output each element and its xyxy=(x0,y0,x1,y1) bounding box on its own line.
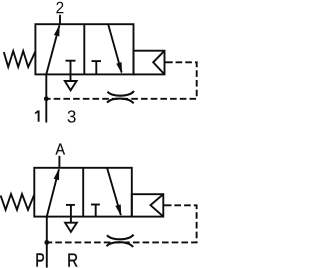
pilot control line V2 (dashed) xyxy=(49,205,197,242)
flow path arrow 1→2 (left square) xyxy=(46,25,59,75)
pneumatic pilot actuator box V2 xyxy=(132,194,164,216)
exhaust triangle port R xyxy=(65,223,77,232)
pneumatic pilot actuator box xyxy=(134,51,165,75)
exhaust stem port 3 xyxy=(70,74,72,81)
junction node (port 1 / pilot tap) xyxy=(44,96,49,101)
pilot triangle xyxy=(153,51,164,75)
blocked port symbol (right square, V2) xyxy=(91,205,100,217)
wire port 1 xyxy=(45,74,47,122)
pilot control line (dashed) xyxy=(48,62,196,99)
return spring V2 xyxy=(1,194,35,210)
label port 1 xyxy=(35,111,39,122)
exhaust triangle port 3 xyxy=(65,81,77,90)
blocked port symbol (left square, V2) xyxy=(66,205,75,217)
restrictor top arc V2 xyxy=(107,235,134,240)
blocked port symbol (right square) xyxy=(92,61,102,74)
label port P xyxy=(36,254,44,267)
restrictor bottom arc V2 xyxy=(107,242,134,247)
restrictor (throttle) top arc xyxy=(108,91,135,96)
exhaust stem port R xyxy=(70,217,72,223)
valve body divider V2 xyxy=(82,168,84,217)
flow path arrow 2→3 (right square) xyxy=(108,24,122,74)
wire port P xyxy=(46,217,48,268)
flow path arrow P→A (left square) xyxy=(47,168,59,216)
label port A xyxy=(55,143,65,154)
wire port A xyxy=(58,156,60,168)
wire port 2 xyxy=(59,15,61,24)
pilot outlet stub xyxy=(165,61,173,63)
label port 2 xyxy=(56,2,63,13)
pilot outlet stub V2 xyxy=(163,204,171,206)
valve body divider V1 xyxy=(83,24,85,74)
return spring xyxy=(4,51,36,67)
junction node (port P / pilot tap) xyxy=(44,240,49,245)
label port 3 xyxy=(68,110,76,122)
valve body outline V2 xyxy=(34,168,132,217)
flow path arrow A→R (right square) xyxy=(107,168,121,216)
label port R xyxy=(68,254,77,267)
pilot triangle V2 xyxy=(151,194,164,216)
blocked port symbol (left square) xyxy=(66,61,76,75)
restrictor (throttle) bottom arc xyxy=(107,99,134,104)
valve body outline V1 xyxy=(35,24,133,74)
